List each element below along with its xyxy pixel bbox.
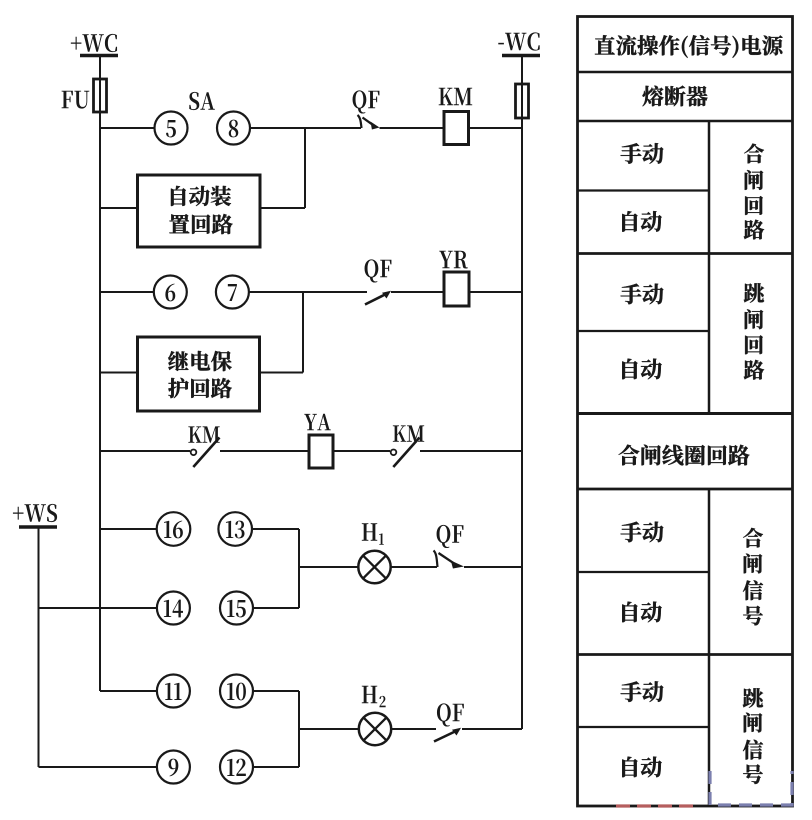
wire +WS vertical bus bbox=[38, 527, 40, 767]
legend sub line (manual/auto split 3) bbox=[578, 571, 710, 573]
contact SA 10 bbox=[220, 675, 253, 708]
block 自动装置回路 (automatic device circuit) bbox=[138, 175, 261, 247]
wire row5 mid-right bbox=[333, 450, 390, 452]
breaker aux contact QF (row3) bbox=[365, 295, 385, 305]
legend table outer border bbox=[578, 17, 793, 807]
wire row5 right bbox=[420, 450, 522, 452]
legend sub line (manual/auto split 4) bbox=[578, 726, 710, 728]
label YR bbox=[439, 251, 467, 269]
wire row3 to YR coil bbox=[391, 291, 444, 293]
legend text 自动 (closing auto) bbox=[622, 211, 662, 232]
contact KM (left) bbox=[191, 450, 197, 456]
legend row line 1 bbox=[578, 71, 793, 74]
wire row3 left bbox=[100, 291, 154, 293]
block 继电保护回路 (relay protection circuit) bbox=[138, 337, 260, 411]
breaker aux contact QF (row1) bbox=[358, 115, 362, 128]
contact SA 16 bbox=[157, 512, 191, 546]
label YA bbox=[304, 414, 331, 430]
legend text 自动 (closing signal auto) bbox=[622, 602, 662, 623]
contact SA 6 bbox=[154, 276, 187, 309]
wire row1 right bbox=[469, 127, 523, 129]
wire row10 left bbox=[39, 766, 158, 768]
closing coil YA bbox=[309, 435, 333, 468]
wire H1 to QF bbox=[391, 566, 437, 568]
legend text 合闸回路 (vertical) bbox=[744, 144, 764, 240]
contact SA 7 bbox=[216, 276, 249, 309]
contact SA 9 bbox=[157, 751, 190, 784]
wire row5 left bbox=[100, 450, 190, 452]
label KM (right contact) bbox=[393, 425, 424, 441]
legend column divider bbox=[708, 121, 711, 806]
wire left bus to auto-device box bbox=[100, 207, 138, 209]
wire relay-protection box to node bbox=[260, 372, 304, 374]
contact SA 15 bbox=[220, 592, 253, 625]
legend text 手动 (closing manual) bbox=[621, 143, 664, 164]
label QF (row1) bbox=[353, 90, 380, 113]
contactor coil KM bbox=[444, 112, 469, 145]
contact SA 13 bbox=[218, 512, 252, 546]
fuse (right, -WC) bbox=[516, 84, 529, 118]
watermark dashes (blue) bbox=[710, 771, 792, 805]
node +WC (positive control bus terminal) bbox=[71, 34, 118, 56]
label QF (H1) bbox=[437, 525, 464, 548]
wire riser 13-15 junction bbox=[298, 529, 300, 608]
wire H2 branch bbox=[299, 728, 359, 730]
wire +WC down to fuse bbox=[99, 56, 101, 81]
wire H2 to QF bbox=[391, 728, 436, 730]
wire H1 branch bbox=[299, 566, 358, 568]
breaker aux contact QF (H1) bbox=[434, 551, 438, 568]
wire right bus (-WC vertical) bbox=[521, 118, 523, 729]
wire left bus (+WC vertical) bbox=[99, 112, 101, 691]
wire H2 right bbox=[462, 728, 522, 730]
wire row8 left bbox=[39, 607, 158, 609]
label H1 bbox=[362, 523, 384, 544]
wire row1 left bbox=[100, 127, 155, 129]
legend row line 3 bbox=[578, 252, 793, 255]
contact SA 12 bbox=[220, 751, 253, 784]
legend text 手动 (trip manual) bbox=[621, 284, 664, 305]
label FU bbox=[62, 91, 90, 109]
legend text 合闸线圈回路 bbox=[619, 445, 750, 466]
legend text 手动 (trip signal manual) bbox=[621, 681, 664, 702]
wire row7 right bbox=[252, 528, 299, 530]
wire H1 right bbox=[464, 566, 522, 568]
wire row3 right bbox=[469, 291, 522, 293]
wire riser 10-12 junction bbox=[298, 691, 300, 767]
wire row8 right bbox=[253, 607, 299, 609]
legend row line 6 bbox=[578, 653, 793, 656]
legend row line 4 bbox=[578, 412, 793, 415]
legend text 自动 (trip auto) bbox=[622, 359, 662, 380]
contact KM (right) bbox=[391, 450, 397, 456]
legend text 直流操作(信号)电源 bbox=[595, 35, 783, 58]
signal lamp H2 bbox=[359, 713, 391, 745]
node -WC (negative control bus terminal) bbox=[498, 32, 540, 55]
wire row7 left bbox=[100, 528, 157, 530]
legend row line 5 bbox=[578, 488, 793, 491]
label QF (row3) bbox=[365, 259, 392, 282]
legend text 合闸信号 (vertical) bbox=[743, 528, 763, 625]
legend text 自动 (trip signal auto) bbox=[622, 757, 662, 778]
legend row line 2 bbox=[578, 120, 793, 123]
wire auto-device box to node bbox=[260, 207, 305, 209]
wire left bus to relay-protection box bbox=[100, 372, 138, 374]
contact SA 5 bbox=[155, 112, 188, 145]
label QF (H2) bbox=[437, 703, 464, 726]
wire row3 mid bbox=[249, 291, 367, 293]
label SA bbox=[189, 92, 215, 110]
watermark dashes (red) bbox=[616, 804, 699, 807]
contact SA 11 bbox=[157, 675, 190, 708]
wire row1 to KM coil bbox=[380, 127, 445, 129]
label H2 bbox=[362, 686, 386, 707]
node +WS (signal bus terminal) bbox=[13, 504, 57, 527]
wire row5 mid-left bbox=[220, 450, 309, 452]
wire row10 right bbox=[253, 766, 299, 768]
legend sub line (manual/auto split 1) bbox=[578, 189, 710, 191]
wire -WC down to fuse bbox=[521, 56, 523, 86]
wire node riser (box2 to row3) bbox=[302, 292, 304, 373]
label KM (left contact) bbox=[188, 426, 219, 442]
trip coil YR bbox=[444, 272, 469, 306]
wire row9 right bbox=[253, 690, 299, 692]
breaker aux contact QF (H2) bbox=[434, 732, 455, 742]
fuse FU bbox=[94, 79, 107, 112]
legend text 跳闸信号 (vertical) bbox=[743, 688, 763, 784]
signal lamp H1 bbox=[358, 551, 390, 583]
legend text 跳闸回路 (vertical) bbox=[744, 283, 764, 379]
legend sub line (manual/auto split 2) bbox=[578, 330, 710, 332]
contact SA 14 bbox=[157, 592, 190, 625]
legend text 熔断器 bbox=[642, 86, 707, 107]
contact SA 8 bbox=[217, 112, 250, 145]
label KM (coil) bbox=[439, 88, 473, 105]
legend text 手动 (closing signal manual) bbox=[621, 522, 664, 543]
wire node riser (box1 to row1) bbox=[304, 128, 306, 208]
wire row1 mid bbox=[250, 127, 361, 129]
wire row9 left bbox=[100, 690, 157, 692]
